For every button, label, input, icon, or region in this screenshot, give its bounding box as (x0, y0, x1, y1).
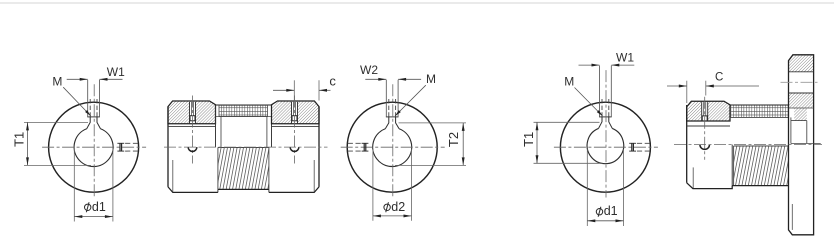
front view B: counterbore side lines / W extension lines (385, 80, 387, 117)
front view C: vertical centerline (605, 70, 607, 197)
front view C: hidden thread lines of top screw hole (601, 99, 603, 117)
section view 1 right hub: set screw body and head (292, 102, 294, 116)
front view A: dimension T arrows (26, 122, 29, 130)
front view B: leader line for M (395, 85, 426, 116)
front view A: dimension W line (67, 78, 88, 80)
front view C: counterbore side lines / W extension lines (599, 66, 601, 117)
front view B: dimension T line (462, 123, 464, 165)
front view B: hidden thread lines of top screw hole (388, 99, 390, 117)
front view C: label diameter d1 (596, 209, 602, 215)
front view B: screw counterbore seat line (386, 116, 399, 118)
front view B: dimension bore diameter extension lines (372, 149, 374, 221)
section view 1: sleeve knurl bottom line (216, 116, 272, 118)
svg-text:d2: d2 (391, 200, 405, 214)
front view A: bore circle with screw slot (74, 129, 113, 167)
section view 1: dimension C extension lines (293, 80, 295, 101)
svg-text:T1: T1 (521, 132, 536, 147)
svg-text:W1: W1 (107, 65, 125, 79)
section view 1: left screw seat hook mark (188, 147, 197, 151)
front view B: dimension bore diameter line (373, 215, 412, 217)
section view 1: left set screw centerline (192, 96, 194, 164)
svg-text:d1: d1 (604, 204, 618, 218)
section view 2 left hub: set screw slot walls (701, 102, 703, 121)
front view A: outer circle (49, 102, 139, 192)
front view A: label diameter d1 (85, 204, 91, 210)
section view 1: left hub left face (167, 107, 169, 187)
section view 2: left hub bottom outline (687, 183, 733, 189)
section view 2 left hub: hub screw slot clearance (702, 102, 708, 121)
svg-text:M: M (52, 74, 62, 88)
section view 1: left hub chamfer edge (external view) (172, 160, 174, 192)
section view 1 right hub: hub outline (272, 101, 320, 124)
front view B: bore circle with screw slot (373, 129, 412, 167)
svg-text:c: c (329, 73, 336, 88)
svg-text:W2: W2 (360, 63, 378, 77)
front view C: screw counterbore seat line (599, 116, 612, 118)
front view C: dimension W line (579, 64, 600, 66)
section view 2: hub right face lower half (731, 145, 733, 186)
front view C: side screw hole thread-end mark (629, 142, 636, 144)
front view C: bore circle with screw slot (587, 128, 624, 163)
section view 2: flange outline (789, 55, 814, 235)
section view 2: left hub chamfer edge (external view) (692, 167, 694, 188)
section view 1 left hub: hub outline (168, 101, 216, 124)
section view 2: horizontal centerline (674, 144, 822, 146)
front view A: hidden thread lines of top screw hole (89, 99, 91, 117)
front view A: dimension T line (27, 122, 29, 165)
front view B: vertical centerline (392, 84, 394, 197)
front view C: dimension T extension lines (534, 121, 600, 123)
section view 1: right hub right face (318, 107, 320, 187)
section view 2: dimension C arrows (679, 85, 687, 88)
section view 1 left hub: set screw body and head (190, 102, 192, 116)
front view C: horizontal centerline (554, 146, 658, 148)
front view B: horizontal centerline (341, 146, 445, 148)
section view 1: hub faces at sleeve (215, 105, 217, 148)
section view 2: set screw centerline (704, 97, 706, 160)
section view 2: flange hatched sections (789, 55, 814, 72)
section view 2: flange boss lines (789, 107, 814, 109)
section view 1 right hub: hub hatched wall (272, 101, 320, 124)
section view 1 left hub: set screw slot walls (189, 102, 191, 124)
front view B: dimension T extension lines (399, 122, 467, 124)
section view 1: sleeve knurled band (219, 105, 268, 116)
front view A: side screw hole hidden lines (125, 142, 140, 144)
section view 1: right hub chamfer edge (external view) (313, 160, 315, 192)
front view B: side screw hole thread-end mark (362, 142, 369, 144)
section view 1: horizontal centerline (164, 146, 328, 148)
front view C: dimension T line (536, 122, 538, 163)
front view B: dimension W line (365, 78, 386, 80)
front view A: dimension bore diameter line (74, 216, 113, 218)
section view 2 left hub: hub outline (687, 101, 730, 121)
front view A: dimension bore diameter extension lines (73, 149, 75, 221)
svg-text:M: M (426, 72, 436, 86)
section view 2: dimension C extension lines (686, 81, 688, 103)
section view 1 left hub: hub screw slot clearance (190, 102, 196, 124)
section view 2: left hub left face (686, 105, 688, 183)
top border rule (0, 2, 834, 4)
svg-text:M: M (564, 74, 574, 88)
section view 1: left hub bottom outline (168, 187, 218, 193)
front view C: dimension T arrows (536, 122, 539, 130)
front view B: dimension T arrows (462, 123, 465, 131)
section view 2: flange bolt hole edges (789, 71, 814, 73)
section view 1: dimension C line (273, 89, 294, 91)
section view 2: flange rear chamfer edge (external view) (791, 204, 793, 230)
front view C: dimension bore diameter line (587, 220, 623, 222)
section view 1: dimension C arrows (286, 89, 294, 92)
front view A: horizontal centerline (42, 146, 146, 148)
section view 1 left hub: hub bore line (168, 126, 216, 128)
front view B: label diameter d2 (384, 204, 390, 210)
section view 2: dimension C line (667, 85, 687, 87)
front view B: side screw hole hidden lines (346, 142, 361, 144)
svg-text:C: C (715, 72, 723, 84)
svg-text:T2: T2 (446, 132, 461, 147)
front view A: vertical centerline (93, 84, 95, 197)
front view C: outer circle (560, 102, 650, 192)
front view B: dimension bore diameter arrows (373, 214, 381, 217)
section view 1 right hub: hub screw slot clearance (292, 102, 298, 124)
front view B: dimension W arrows (378, 78, 386, 81)
section view 1 right hub: set screw slot walls (291, 102, 293, 124)
front view A: counterbore side lines / W extension lines (87, 80, 89, 117)
front view A: dimension T extension lines (24, 121, 88, 123)
front view C: dimension bore diameter extension lines (586, 149, 588, 226)
section view 2: screw seat hook mark (700, 145, 710, 150)
front view A: side screw hole thread-end mark (117, 142, 124, 144)
svg-text:d1: d1 (92, 200, 106, 214)
front view A: dimension W arrows (80, 78, 88, 81)
section view 2 left hub: hub hatched wall (687, 101, 730, 121)
front view C: side screw hole hidden lines (637, 142, 652, 144)
section view 1: right hub bottom outline (269, 187, 319, 193)
section view 2 left hub: set screw body and head (703, 102, 705, 116)
section view 1 left hub: hub hatched wall (168, 101, 216, 124)
section view 2: bolt hole centerline (781, 81, 818, 83)
front view A: dimension bore diameter arrows (74, 215, 82, 218)
section view 1 right hub: hub bore line (272, 126, 320, 128)
front view C: dimension W arrows (592, 64, 600, 67)
front view A: screw counterbore seat line (87, 116, 100, 118)
section view 1: sleeve top surface (216, 104, 272, 106)
front view A: leader line for M (63, 87, 91, 116)
svg-text:W1: W1 (616, 50, 634, 64)
section view 1: bottom steps hub-to-sleeve (217, 189, 219, 192)
section view 2 left hub: hub bore line (687, 125, 730, 127)
svg-text:T1: T1 (12, 132, 27, 147)
section view 1: right screw seat hook mark (290, 147, 299, 151)
front view C: leader line for M (575, 88, 603, 117)
section view 2: flange center bore line (791, 143, 821, 145)
section view 2: sleeve knurled band (730, 105, 789, 117)
front view C: dimension bore diameter arrows (587, 219, 595, 222)
section view 1: sleeve inner walls (220, 117, 222, 148)
front view B: outer circle (347, 102, 437, 192)
section view 1: right set screw centerline (294, 96, 296, 164)
